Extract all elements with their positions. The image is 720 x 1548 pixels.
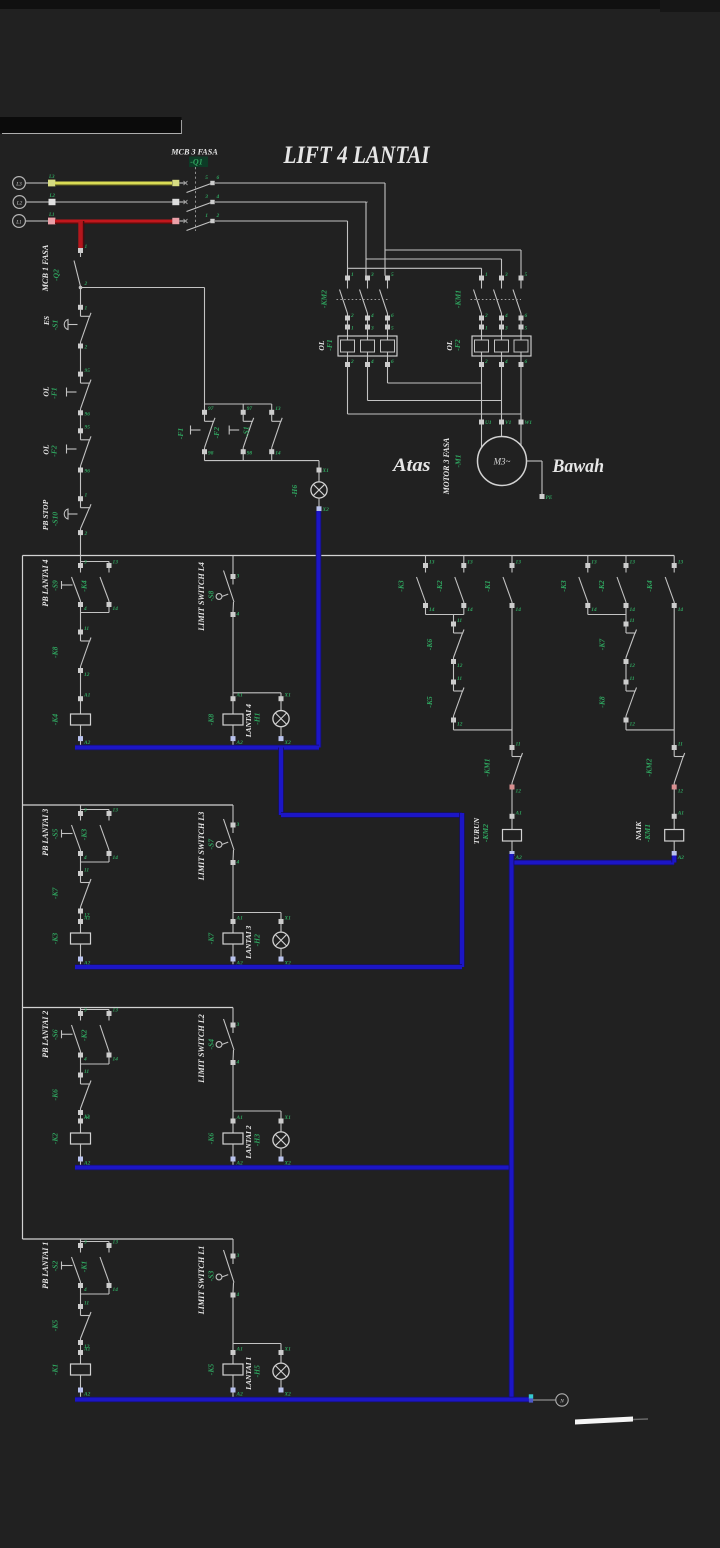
- wire merge (down group): [425, 608, 427, 615]
- wire to coil -K3: [80, 913, 82, 919]
- nc contact -K5 (down group): [451, 680, 456, 685]
- svg-text:13: 13: [429, 560, 435, 566]
- svg-text:PE: PE: [546, 495, 553, 501]
- svg-text:-S6: -S6: [51, 1029, 60, 1040]
- svg-text:L1: L1: [15, 219, 22, 225]
- svg-text:14: 14: [113, 1287, 119, 1293]
- wire F1 out 1 to W1: [347, 367, 349, 414]
- svg-text:4: 4: [236, 612, 240, 618]
- aux contact F1: [204, 404, 206, 410]
- svg-text:A1: A1: [83, 693, 91, 699]
- wire L1 branch to KM1: [348, 267, 482, 269]
- lamp H6: [318, 472, 320, 482]
- wire Q2 down to ES: [80, 288, 82, 305]
- wire L2 run: [215, 201, 366, 203]
- coil -K1: [78, 1350, 83, 1355]
- svg-text:-K4: -K4: [80, 580, 89, 592]
- limit switch -S8 LIMIT SWITCH L4: [232, 556, 234, 575]
- svg-text:97: 97: [247, 406, 253, 412]
- svg-text:L3: L3: [15, 181, 22, 187]
- svg-text:A1: A1: [83, 916, 91, 922]
- wire neutral rung 1 rail: [75, 1397, 531, 1403]
- svg-text:-K1: -K1: [483, 580, 492, 592]
- svg-text:12: 12: [84, 672, 90, 678]
- svg-text:13: 13: [113, 560, 119, 566]
- svg-text:3: 3: [236, 822, 240, 828]
- svg-text:-H3: -H3: [253, 1134, 262, 1146]
- lamp -H5 LANTAI 1: [280, 1344, 282, 1351]
- wire main rail: [23, 555, 675, 557]
- svg-text:1: 1: [85, 244, 88, 250]
- svg-text:X1: X1: [284, 916, 292, 922]
- svg-text:11: 11: [84, 1301, 89, 1307]
- svg-text:-K5: -K5: [207, 1364, 216, 1376]
- svg-text:A1: A1: [83, 1347, 91, 1353]
- svg-text:3: 3: [370, 326, 374, 332]
- wire L1 red drop to Q2: [79, 222, 83, 224]
- svg-text:5: 5: [391, 272, 394, 278]
- svg-text:5: 5: [525, 326, 528, 332]
- contactor KM1: [479, 276, 484, 281]
- wire left bus: [22, 556, 24, 1240]
- wire L2 to terminal: [26, 201, 49, 203]
- svg-text:-K1: -K1: [80, 1261, 89, 1273]
- wire F2 out to motor: [481, 367, 483, 420]
- svg-text:13: 13: [113, 808, 119, 814]
- svg-text:-KM1: -KM1: [483, 758, 492, 776]
- svg-text:95: 95: [85, 368, 91, 374]
- wire neutral from H6: [316, 511, 322, 748]
- source N: [556, 1394, 568, 1406]
- svg-text:14: 14: [467, 607, 473, 613]
- svg-text:14: 14: [113, 1056, 119, 1062]
- svg-text:3: 3: [236, 1022, 240, 1028]
- svg-text:-KM1: -KM1: [454, 290, 463, 308]
- svg-text:1: 1: [85, 493, 88, 499]
- svg-text:13: 13: [467, 560, 473, 566]
- terminal neutral end: [529, 1394, 533, 1398]
- wire aux block top rail: [205, 403, 272, 405]
- stop pushbutton S10: [78, 496, 83, 501]
- svg-text:-K2: -K2: [80, 1029, 89, 1041]
- svg-text:13: 13: [113, 1240, 119, 1246]
- aux contact -K4 parallel: [107, 563, 112, 568]
- wire F1 out 3 to U1: [387, 367, 389, 383]
- svg-text:13: 13: [630, 560, 636, 566]
- wire aux block bottom rail: [204, 454, 206, 461]
- wire limit switch to coil -K5: [232, 1297, 234, 1350]
- svg-text:14: 14: [113, 855, 119, 861]
- svg-text:-H6: -H6: [290, 485, 299, 497]
- motor terminals U1 V1 W1: [479, 420, 484, 425]
- svg-text:-K5: -K5: [425, 696, 434, 708]
- svg-text:11: 11: [84, 868, 89, 874]
- svg-text:-K3: -K3: [397, 580, 406, 592]
- svg-text:1: 1: [351, 272, 354, 278]
- svg-text:14: 14: [275, 450, 281, 456]
- svg-text:3: 3: [504, 326, 508, 332]
- svg-text:4: 4: [83, 855, 87, 861]
- lamp -H1 LANTAI 4: [280, 693, 282, 697]
- svg-text:-KM2: -KM2: [481, 824, 490, 842]
- wire L2 drop KM2: [366, 258, 368, 260]
- svg-text:11: 11: [84, 1069, 89, 1075]
- svg-text:PB LANTAI 3: PB LANTAI 3: [41, 809, 50, 856]
- svg-text:96: 96: [85, 412, 91, 418]
- nc contact -K7 (up group): [624, 622, 629, 627]
- svg-text:-S8: -S8: [207, 591, 216, 602]
- svg-text:N: N: [559, 1398, 564, 1404]
- svg-text:PB LANTAI 2: PB LANTAI 2: [41, 1011, 50, 1058]
- wire stack to column (down group): [453, 722, 455, 730]
- wire L1 red: [55, 222, 173, 224]
- svg-text:-M1: -M1: [454, 454, 463, 467]
- svg-text:M3~: M3~: [493, 457, 511, 467]
- svg-text:2: 2: [484, 313, 488, 319]
- terminal X2 H6: [317, 506, 322, 511]
- terminal L1: [48, 218, 55, 225]
- wire merge (up group): [587, 608, 589, 615]
- nc contact -KM2 (up group): [672, 745, 677, 750]
- source L1: [13, 215, 26, 228]
- svg-text:11: 11: [630, 676, 635, 682]
- svg-text:-S5: -S5: [51, 829, 60, 840]
- svg-text:V1: V1: [505, 420, 512, 426]
- svg-text:5: 5: [391, 326, 394, 332]
- pushbutton -S9 PB LANTAI 4: [80, 556, 82, 564]
- nc contact -K8 (up group): [624, 680, 629, 685]
- wire rung 1 merge: [80, 1288, 82, 1294]
- wire rung 3 merge: [80, 856, 82, 862]
- wire rung 4 merge: [80, 607, 82, 613]
- svg-text:-H5: -H5: [253, 1365, 262, 1377]
- nc contact -K7: [78, 871, 83, 876]
- wire rung 3 rail: [23, 804, 234, 806]
- svg-text:13: 13: [113, 1008, 119, 1014]
- svg-text:-K5: -K5: [51, 1320, 60, 1332]
- svg-text:-S1: -S1: [242, 426, 251, 437]
- svg-text:11: 11: [678, 742, 683, 748]
- svg-text:-K6: -K6: [51, 1089, 60, 1101]
- svg-text:-F2: -F2: [50, 445, 59, 457]
- svg-text:-KM2: -KM2: [645, 758, 654, 776]
- svg-text:-H2: -H2: [253, 934, 262, 946]
- svg-text:2: 2: [484, 359, 488, 365]
- svg-text:Bawah: Bawah: [552, 457, 604, 477]
- svg-text:3: 3: [83, 1008, 87, 1014]
- svg-text:LIMIT SWITCH L1: LIMIT SWITCH L1: [197, 1246, 206, 1316]
- svg-text:A1: A1: [236, 693, 244, 699]
- limit switch -S3 LIMIT SWITCH L1: [232, 1239, 234, 1254]
- terminal L3: [48, 180, 55, 187]
- svg-text:97: 97: [208, 406, 214, 412]
- aux contact -K3 parallel: [107, 811, 112, 816]
- pushbutton -S5 PB LANTAI 3: [80, 805, 82, 812]
- source L3: [13, 177, 26, 190]
- wire rung 2 merge: [80, 1057, 82, 1064]
- svg-text:6: 6: [525, 359, 528, 365]
- wire rung 1 rail: [23, 1238, 234, 1240]
- svg-text:2: 2: [216, 213, 220, 219]
- coil -K7: [231, 919, 236, 924]
- svg-text:98: 98: [208, 450, 214, 456]
- svg-text:4: 4: [236, 1060, 240, 1066]
- svg-text:14: 14: [429, 607, 435, 613]
- svg-text:PB LANTAI 1: PB LANTAI 1: [41, 1242, 50, 1289]
- svg-text:-K2: -K2: [435, 580, 444, 592]
- limit switch -S4 LIMIT SWITCH L2: [232, 1008, 234, 1024]
- wire F2 to S10: [80, 472, 82, 496]
- svg-text:3: 3: [236, 574, 240, 580]
- lamp -H2 LANTAI 3: [280, 913, 282, 920]
- svg-text:96: 96: [85, 469, 91, 475]
- aux contact -K3 (down group): [425, 556, 427, 564]
- coil -KM1 NAIK: [672, 814, 677, 819]
- aux contact -K2 parallel: [107, 1011, 112, 1016]
- aux contact -K2 (up group): [625, 556, 627, 564]
- overload contact F2: [78, 428, 83, 433]
- svg-text:6: 6: [391, 313, 394, 319]
- coil -KM2 TURUN: [510, 814, 515, 819]
- aux contact -K4 (up group): [673, 556, 675, 564]
- svg-text:12: 12: [457, 721, 463, 727]
- svg-text:PB LANTAI 4: PB LANTAI 4: [41, 559, 50, 606]
- svg-text:-K4: -K4: [51, 714, 60, 726]
- aux contact F2: [242, 404, 244, 410]
- svg-text:1: 1: [205, 213, 208, 219]
- svg-text:4: 4: [236, 860, 240, 866]
- wire neutral rung 3 rail: [75, 964, 462, 970]
- svg-text:12: 12: [516, 788, 522, 794]
- svg-text:3: 3: [504, 272, 508, 278]
- aux contact S1: [271, 404, 273, 410]
- svg-text:5: 5: [525, 272, 528, 278]
- svg-text:L2: L2: [49, 194, 56, 199]
- source L2: [13, 196, 26, 209]
- svg-text:11: 11: [457, 618, 462, 624]
- svg-text:PB STOP: PB STOP: [41, 499, 50, 530]
- svg-text:13: 13: [516, 560, 522, 566]
- ui bar top-left: [0, 117, 182, 134]
- svg-text:13: 13: [678, 560, 684, 566]
- overload relay F2: [472, 336, 531, 356]
- svg-text:3: 3: [83, 808, 87, 814]
- svg-text:4: 4: [504, 359, 508, 365]
- terminal X1 H6: [317, 468, 322, 473]
- svg-text:TURUN: TURUN: [472, 817, 481, 844]
- wire L3 yellow: [55, 184, 172, 186]
- wire neutral main drop: [509, 854, 515, 1400]
- svg-text:-KM1: -KM1: [643, 824, 652, 842]
- wire S10 to rail: [80, 535, 82, 556]
- svg-text:3: 3: [83, 1240, 87, 1246]
- svg-text:12: 12: [457, 663, 463, 669]
- svg-text:U1: U1: [485, 420, 492, 426]
- terminals F1 out: [345, 362, 350, 367]
- svg-text:-K2: -K2: [597, 580, 606, 592]
- svg-text:L1: L1: [48, 213, 55, 218]
- svg-text:95: 95: [85, 425, 91, 431]
- svg-text:X1: X1: [322, 468, 330, 474]
- coil -K4: [78, 696, 83, 701]
- svg-text:MCB 3 FASA: MCB 3 FASA: [170, 148, 218, 157]
- svg-text:-S2: -S2: [51, 1261, 60, 1272]
- svg-text:X1: X1: [284, 693, 292, 699]
- svg-text:A1: A1: [83, 1115, 91, 1121]
- svg-text:4: 4: [216, 194, 220, 200]
- svg-text:-S7: -S7: [207, 838, 216, 850]
- svg-text:14: 14: [113, 606, 119, 612]
- wire L1 to terminal: [25, 220, 48, 222]
- svg-text:4: 4: [83, 1056, 87, 1062]
- breaker Q1 MCB 3 FASA: [172, 180, 179, 186]
- svg-text:LIFT 4 LANTAI: LIFT 4 LANTAI: [283, 142, 431, 169]
- coil -K2: [78, 1119, 83, 1124]
- overload contact F1: [78, 372, 83, 377]
- svg-text:-S3: -S3: [207, 1271, 216, 1282]
- svg-text:1: 1: [485, 272, 488, 278]
- svg-text:A2: A2: [677, 855, 685, 861]
- svg-text:X2: X2: [322, 507, 330, 513]
- pushbutton -S6 PB LANTAI 2: [80, 1008, 82, 1012]
- svg-text:-F1: -F1: [176, 428, 185, 440]
- svg-text:-K2: -K2: [51, 1133, 60, 1145]
- wire stack to column (up group): [625, 722, 627, 730]
- nc contact -K6 (down group): [451, 622, 456, 627]
- svg-text:2: 2: [84, 345, 88, 351]
- wire column down (up group): [673, 608, 675, 746]
- svg-text:14: 14: [630, 607, 636, 613]
- svg-text:-Q2: -Q2: [52, 269, 61, 281]
- svg-text:-K6: -K6: [207, 1133, 216, 1145]
- svg-text:2: 2: [350, 313, 354, 319]
- wire neutral drop to rung 3: [459, 813, 465, 967]
- svg-text:5: 5: [205, 175, 208, 181]
- wire to coil -K4: [80, 673, 82, 697]
- svg-text:-K3: -K3: [80, 829, 89, 841]
- svg-text:4: 4: [370, 313, 374, 319]
- coil -K8: [231, 696, 236, 701]
- svg-text:14: 14: [591, 607, 597, 613]
- svg-text:A1: A1: [236, 1115, 244, 1121]
- svg-text:L3: L3: [48, 175, 55, 180]
- svg-text:11: 11: [630, 618, 635, 624]
- wire F1 to F2: [80, 415, 82, 429]
- svg-text:L2: L2: [16, 200, 23, 206]
- wire neutral cross to 462: [281, 812, 462, 818]
- svg-text:13: 13: [275, 406, 281, 412]
- svg-text:-F2: -F2: [453, 339, 462, 351]
- wire L1 run: [215, 220, 348, 222]
- svg-text:-K8: -K8: [207, 714, 216, 726]
- svg-text:11: 11: [84, 626, 89, 632]
- svg-text:4: 4: [236, 1292, 240, 1298]
- pushbutton -S2 PB LANTAI 1: [80, 1239, 82, 1244]
- wire Q2 to contact block: [81, 287, 205, 289]
- wire to N: [533, 1399, 556, 1401]
- svg-text:MOTOR 3 FASA: MOTOR 3 FASA: [442, 437, 451, 495]
- svg-text:-F1: -F1: [50, 387, 59, 399]
- wire limit switch to coil -K6: [232, 1065, 234, 1119]
- wire L3 to terminal: [25, 182, 48, 184]
- svg-text:MCB 1 FASA: MCB 1 FASA: [41, 244, 50, 292]
- svg-text:-K3: -K3: [51, 933, 60, 945]
- limit switch -S7 LIMIT SWITCH L3: [232, 805, 234, 823]
- wire to coil -K2: [80, 1115, 82, 1119]
- overload relay F1: [338, 336, 397, 356]
- svg-text:14: 14: [678, 607, 684, 613]
- terminal Q2 top: [78, 248, 83, 253]
- svg-text:LIMIT SWITCH L2: LIMIT SWITCH L2: [197, 1014, 206, 1084]
- svg-text:2: 2: [350, 359, 354, 365]
- svg-text:A1: A1: [236, 1347, 244, 1353]
- wire neutral KM coils link: [512, 860, 675, 866]
- aux contact -K3 (up group): [587, 556, 589, 564]
- contactor KM2: [345, 276, 350, 281]
- wire limit switch to coil -K8: [232, 617, 234, 697]
- svg-text:-S1: -S1: [51, 320, 60, 331]
- svg-text:12: 12: [678, 788, 684, 794]
- wire motor PE: [527, 460, 543, 462]
- svg-text:LIMIT SWITCH L3: LIMIT SWITCH L3: [197, 812, 206, 882]
- svg-text:13: 13: [591, 560, 597, 566]
- svg-text:W1: W1: [525, 420, 533, 426]
- wire column down (down group): [511, 608, 513, 746]
- svg-text:3: 3: [204, 194, 208, 200]
- aux contact -K1 (down group): [511, 556, 513, 564]
- nc contact -K5: [78, 1304, 83, 1309]
- wire L3 branch to KM1: [385, 249, 521, 251]
- terminals F2 out: [479, 362, 484, 367]
- svg-text:98: 98: [247, 450, 253, 456]
- wire rung 2 rail: [23, 1007, 234, 1009]
- svg-text:LIMIT SWITCH L4: LIMIT SWITCH L4: [197, 562, 206, 632]
- wire neutral rung 4 rail: [75, 745, 319, 751]
- svg-text:-K3: -K3: [559, 580, 568, 592]
- svg-text:-S4: -S4: [207, 1039, 216, 1050]
- terminal L2: [49, 199, 56, 205]
- svg-text:A1: A1: [515, 810, 523, 816]
- motor leads: [481, 424, 483, 448]
- svg-text:2: 2: [84, 281, 88, 287]
- terminal PE: [540, 494, 545, 499]
- svg-text:2: 2: [84, 531, 88, 537]
- svg-text:3: 3: [370, 272, 374, 278]
- svg-text:4: 4: [504, 313, 508, 319]
- emergency stop S1: [78, 305, 83, 310]
- svg-text:-Q1: -Q1: [190, 158, 202, 167]
- breaker Q1 link dashed: [195, 167, 197, 231]
- coil -K5: [231, 1350, 236, 1355]
- wire L3 run: [215, 182, 385, 184]
- svg-text:11: 11: [457, 676, 462, 682]
- nc contact -K6: [78, 1073, 83, 1078]
- svg-text:-F1: -F1: [325, 339, 334, 351]
- wire F1 out 2 to V1: [367, 367, 369, 401]
- svg-text:12: 12: [630, 663, 636, 669]
- svg-text:-K7: -K7: [51, 886, 60, 899]
- aux contact -K2 (down group): [463, 556, 465, 564]
- svg-text:6: 6: [217, 175, 220, 181]
- wire limit switch to coil -K7: [232, 865, 234, 920]
- svg-text:3: 3: [236, 1253, 240, 1259]
- svg-text:6: 6: [525, 313, 528, 319]
- svg-text:A1: A1: [236, 916, 244, 922]
- svg-text:-KM2: -KM2: [320, 290, 329, 308]
- ui progress bar: [575, 1417, 633, 1425]
- aux contact -K1 parallel: [107, 1243, 112, 1248]
- svg-text:X1: X1: [284, 1347, 292, 1353]
